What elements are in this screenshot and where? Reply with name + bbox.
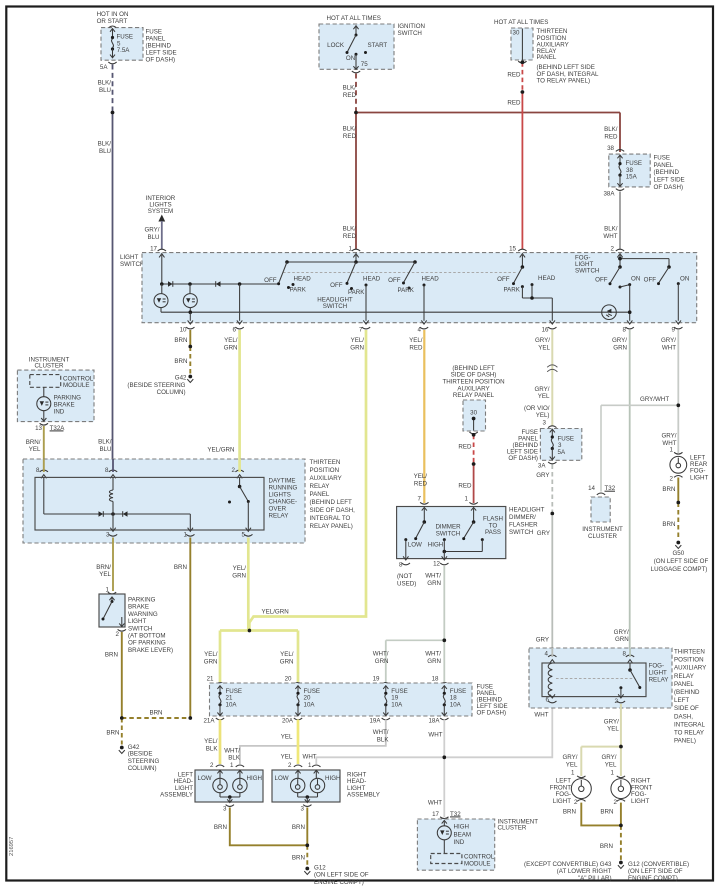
- svg-text:30: 30: [513, 30, 520, 37]
- svg-text:HEAD: HEAD: [363, 276, 381, 283]
- svg-text:GRN: GRN: [224, 344, 238, 351]
- svg-text:17: 17: [432, 811, 439, 818]
- svg-text:2: 2: [574, 799, 578, 806]
- svg-text:POSITION: POSITION: [674, 657, 704, 664]
- svg-text:PANEL: PANEL: [310, 491, 330, 498]
- svg-text:GRY/: GRY/: [601, 754, 616, 761]
- svg-text:COLUMN): COLUMN): [128, 765, 157, 772]
- svg-text:1: 1: [184, 532, 188, 539]
- svg-text:HOT IN ON: HOT IN ON: [97, 11, 129, 18]
- svg-text:RED: RED: [458, 444, 472, 451]
- svg-text:PANEL): PANEL): [674, 738, 696, 745]
- svg-text:FOG-: FOG-: [649, 663, 664, 670]
- svg-text:(BEHIND: (BEHIND: [654, 169, 680, 176]
- svg-text:12: 12: [433, 561, 440, 568]
- svg-text:RED: RED: [343, 233, 357, 240]
- svg-text:CHANGE-: CHANGE-: [269, 499, 298, 506]
- svg-text:5: 5: [242, 532, 246, 539]
- svg-text:BLK/: BLK/: [604, 126, 618, 133]
- svg-text:GRN: GRN: [232, 572, 246, 579]
- svg-text:BEAM: BEAM: [454, 831, 472, 838]
- svg-text:WHT/: WHT/: [425, 651, 441, 658]
- svg-text:WARNING: WARNING: [128, 611, 158, 618]
- svg-text:HEAD: HEAD: [538, 275, 556, 282]
- svg-text:SWITCH: SWITCH: [575, 268, 599, 275]
- svg-text:14: 14: [588, 485, 595, 492]
- svg-text:LIGHTS: LIGHTS: [269, 492, 291, 499]
- svg-text:BLK: BLK: [377, 736, 390, 743]
- svg-text:DAYTIME: DAYTIME: [269, 478, 296, 485]
- svg-text:YEL/: YEL/: [233, 565, 247, 572]
- svg-text:2: 2: [288, 762, 292, 769]
- svg-text:OFF: OFF: [388, 277, 401, 284]
- svg-text:MODULE: MODULE: [63, 382, 89, 389]
- svg-text:YEL: YEL: [281, 733, 293, 740]
- svg-text:DASH,: DASH,: [674, 713, 693, 720]
- svg-text:3: 3: [301, 806, 305, 813]
- svg-text:BRN: BRN: [563, 808, 576, 815]
- svg-text:ENGINE COMPT): ENGINE COMPT): [628, 875, 678, 882]
- svg-text:ENGINE COMPT): ENGINE COMPT): [314, 879, 364, 886]
- svg-text:GRY: GRY: [536, 637, 549, 644]
- svg-text:(BESIDE: (BESIDE: [128, 751, 153, 758]
- svg-text:FUSE: FUSE: [654, 154, 671, 161]
- svg-text:10A: 10A: [450, 701, 462, 708]
- svg-text:BRN: BRN: [174, 358, 187, 365]
- svg-text:SIDE OF DASH): SIDE OF DASH): [451, 372, 497, 379]
- svg-text:38A: 38A: [603, 191, 615, 198]
- svg-text:LIGHT: LIGHT: [631, 798, 649, 805]
- svg-text:BLK/: BLK/: [604, 226, 618, 233]
- svg-text:RED: RED: [507, 100, 521, 107]
- svg-text:3: 3: [543, 420, 547, 427]
- svg-text:2: 2: [614, 799, 618, 806]
- svg-text:BRN/: BRN/: [26, 439, 41, 446]
- svg-text:BRN: BRN: [214, 824, 227, 831]
- svg-text:MODULE: MODULE: [464, 860, 490, 867]
- svg-text:GRN: GRN: [427, 580, 441, 587]
- svg-text:SWITCH: SWITCH: [323, 303, 347, 310]
- svg-text:YEL: YEL: [538, 344, 550, 351]
- svg-text:1: 1: [611, 770, 615, 777]
- svg-text:GRY/: GRY/: [614, 629, 629, 636]
- svg-text:GRY/: GRY/: [562, 754, 577, 761]
- svg-text:FOG-: FOG-: [690, 468, 705, 475]
- svg-text:YEL/: YEL/: [414, 473, 428, 480]
- svg-text:5A: 5A: [558, 449, 566, 456]
- svg-text:3: 3: [106, 532, 110, 539]
- svg-text:BRN: BRN: [600, 843, 613, 850]
- svg-text:PARK: PARK: [348, 289, 365, 296]
- svg-text:WHT/: WHT/: [425, 573, 441, 580]
- svg-text:LEFT SIDE: LEFT SIDE: [146, 50, 177, 57]
- svg-text:10A: 10A: [391, 701, 403, 708]
- svg-text:WHT: WHT: [534, 711, 548, 718]
- svg-text:GRY: GRY: [537, 530, 550, 537]
- svg-text:BLK/: BLK/: [343, 226, 357, 233]
- svg-text:LOW: LOW: [198, 775, 212, 782]
- svg-text:TO RELAY: TO RELAY: [674, 730, 704, 737]
- svg-text:2: 2: [232, 467, 236, 474]
- svg-text:15: 15: [509, 246, 516, 253]
- svg-text:10A: 10A: [226, 701, 238, 708]
- svg-text:(AT BOTTOM: (AT BOTTOM: [128, 633, 165, 640]
- svg-text:LIGHT: LIGHT: [649, 670, 667, 677]
- svg-text:BRN: BRN: [174, 564, 187, 571]
- svg-text:OF DASH): OF DASH): [508, 455, 538, 462]
- svg-text:SIDE OF DASH,: SIDE OF DASH,: [310, 507, 356, 514]
- svg-text:(ON LEFT SIDE OF: (ON LEFT SIDE OF: [314, 872, 369, 879]
- svg-text:ASSEMBLY: ASSEMBLY: [160, 792, 193, 799]
- svg-text:SYSTEM: SYSTEM: [148, 208, 173, 215]
- svg-text:WHT/: WHT/: [224, 747, 240, 754]
- svg-text:10: 10: [180, 327, 187, 334]
- svg-text:17: 17: [150, 246, 157, 253]
- svg-text:RED: RED: [343, 92, 357, 99]
- svg-text:START: START: [368, 42, 388, 49]
- svg-text:RELAY PANEL): RELAY PANEL): [310, 523, 353, 530]
- svg-text:BRAKE: BRAKE: [54, 402, 75, 409]
- svg-text:20: 20: [285, 676, 292, 683]
- svg-text:WHT: WHT: [428, 799, 442, 806]
- svg-text:BRN: BRN: [662, 486, 675, 493]
- svg-text:COLUMN): COLUMN): [157, 389, 186, 396]
- svg-text:YEL: YEL: [607, 726, 619, 733]
- svg-text:BLU: BLU: [147, 234, 159, 241]
- svg-text:BRN: BRN: [662, 521, 675, 528]
- svg-text:PANEL: PANEL: [654, 162, 674, 169]
- svg-text:38: 38: [607, 145, 614, 152]
- svg-text:BRN: BRN: [292, 855, 305, 862]
- svg-text:PARK: PARK: [504, 286, 521, 293]
- svg-text:RED: RED: [343, 133, 357, 140]
- svg-text:INTEGRAL: INTEGRAL: [674, 721, 706, 728]
- svg-text:ON: ON: [680, 276, 689, 283]
- svg-text:LOW: LOW: [275, 775, 289, 782]
- svg-text:G12 (CONVERTIBLE): G12 (CONVERTIBLE): [628, 861, 689, 868]
- svg-text:21: 21: [207, 676, 214, 683]
- svg-text:1: 1: [230, 762, 234, 769]
- svg-text:BRAKE LEVER): BRAKE LEVER): [128, 647, 173, 654]
- svg-text:TO RELAY PANEL): TO RELAY PANEL): [537, 78, 591, 85]
- svg-text:CLUSTER: CLUSTER: [588, 533, 617, 540]
- svg-text:(BEHIND LEFT: (BEHIND LEFT: [310, 499, 353, 506]
- svg-text:CLUSTER: CLUSTER: [35, 363, 64, 370]
- svg-text:6: 6: [233, 327, 237, 334]
- svg-text:LUGGAGE COMPT): LUGGAGE COMPT): [651, 566, 708, 573]
- svg-text:BRN: BRN: [105, 652, 118, 659]
- svg-text:OFF: OFF: [497, 276, 510, 283]
- svg-text:8: 8: [105, 467, 109, 474]
- svg-text:IND: IND: [454, 839, 465, 846]
- svg-text:3: 3: [223, 806, 227, 813]
- svg-text:7.5A: 7.5A: [117, 47, 131, 54]
- svg-text:SWITCH: SWITCH: [436, 530, 460, 537]
- svg-text:GRY: GRY: [536, 472, 549, 479]
- svg-text:ON: ON: [631, 276, 640, 283]
- svg-text:LIGHT: LIGHT: [553, 798, 571, 805]
- svg-text:SIDE OF: SIDE OF: [674, 705, 699, 712]
- svg-text:WHT/: WHT/: [373, 729, 389, 736]
- svg-text:PANEL: PANEL: [537, 54, 557, 61]
- svg-text:19: 19: [373, 676, 380, 683]
- svg-text:WHT: WHT: [428, 731, 442, 738]
- svg-text:BLK/: BLK/: [98, 80, 112, 87]
- svg-text:RELAY: RELAY: [269, 513, 289, 520]
- svg-text:RED: RED: [458, 482, 472, 489]
- svg-text:OR START: OR START: [97, 18, 128, 25]
- svg-text:OFF: OFF: [595, 277, 608, 284]
- svg-text:GRN: GRN: [615, 636, 629, 643]
- svg-text:15A: 15A: [626, 174, 638, 181]
- svg-text:RED: RED: [414, 480, 428, 487]
- svg-text:GRY/: GRY/: [604, 718, 619, 725]
- svg-text:BRN/: BRN/: [96, 564, 111, 571]
- svg-text:18A: 18A: [428, 718, 440, 725]
- svg-text:(BEHIND: (BEHIND: [674, 689, 700, 696]
- svg-text:OF DASH): OF DASH): [654, 184, 684, 191]
- svg-text:1: 1: [349, 246, 353, 253]
- svg-text:G42: G42: [175, 374, 187, 381]
- svg-text:YEL/: YEL/: [204, 651, 218, 658]
- svg-text:CLUSTER: CLUSTER: [498, 825, 527, 832]
- svg-text:SWITCH: SWITCH: [398, 30, 422, 37]
- svg-text:INSTRUMENT: INSTRUMENT: [582, 526, 623, 533]
- svg-text:WHT/: WHT/: [373, 651, 389, 658]
- svg-text:2: 2: [611, 246, 615, 253]
- svg-text:LOCK: LOCK: [327, 42, 345, 49]
- svg-text:216957: 216957: [9, 837, 15, 856]
- svg-text:LIGHT: LIGHT: [120, 254, 138, 261]
- svg-text:OF DASH): OF DASH): [146, 57, 176, 64]
- svg-text:GRN: GRN: [427, 658, 441, 665]
- svg-text:RED: RED: [409, 344, 423, 351]
- svg-text:RUNNING: RUNNING: [269, 485, 298, 492]
- svg-text:GRN: GRN: [280, 658, 294, 665]
- svg-text:LIGHT: LIGHT: [690, 475, 708, 482]
- svg-text:RELAY: RELAY: [674, 673, 694, 680]
- svg-text:YEL: YEL: [538, 393, 550, 400]
- svg-text:(EXCEPT CONVERTIBLE) G43: (EXCEPT CONVERTIBLE) G43: [524, 861, 612, 868]
- svg-text:LIGHT: LIGHT: [128, 618, 146, 625]
- svg-text:YEL: YEL: [99, 571, 111, 578]
- svg-text:1: 1: [308, 762, 312, 769]
- svg-text:GRN: GRN: [613, 344, 627, 351]
- svg-text:BLK/: BLK/: [98, 141, 112, 148]
- svg-text:9: 9: [672, 327, 676, 334]
- svg-text:POSITION: POSITION: [310, 467, 340, 474]
- svg-text:4: 4: [418, 327, 422, 334]
- svg-text:YEL: YEL: [566, 761, 578, 768]
- svg-text:YEL/: YEL/: [204, 738, 218, 745]
- svg-text:16: 16: [542, 327, 549, 334]
- svg-text:8: 8: [623, 327, 627, 334]
- svg-text:HEAD: HEAD: [422, 276, 440, 283]
- svg-text:HIGH: HIGH: [325, 775, 340, 782]
- svg-text:YEL/GRN: YEL/GRN: [207, 447, 234, 454]
- svg-text:YEL/GRN: YEL/GRN: [262, 608, 289, 615]
- svg-text:19A: 19A: [369, 718, 381, 725]
- svg-text:1: 1: [465, 496, 469, 503]
- svg-text:"A" PILLAR): "A" PILLAR): [578, 875, 612, 882]
- svg-text:LEFT SIDE: LEFT SIDE: [654, 176, 685, 183]
- svg-text:BLK/: BLK/: [343, 85, 357, 92]
- svg-text:GRY/: GRY/: [661, 337, 676, 344]
- svg-text:OFF: OFF: [330, 282, 343, 289]
- svg-text:YEL/: YEL/: [351, 337, 365, 344]
- svg-text:LEFT: LEFT: [674, 697, 689, 704]
- svg-text:PARKING: PARKING: [54, 395, 82, 402]
- svg-text:BLU: BLU: [99, 446, 111, 453]
- svg-text:GRN: GRN: [350, 344, 364, 351]
- svg-text:8: 8: [36, 467, 40, 474]
- svg-text:PARKING: PARKING: [128, 597, 156, 604]
- svg-text:GRY/: GRY/: [661, 433, 676, 440]
- svg-text:BLK/: BLK/: [98, 439, 112, 446]
- svg-text:HIGH: HIGH: [247, 775, 262, 782]
- svg-text:2: 2: [210, 762, 214, 769]
- svg-text:WHT: WHT: [303, 753, 317, 760]
- svg-text:OVER: OVER: [269, 506, 287, 513]
- svg-text:THIRTEEN: THIRTEEN: [674, 649, 705, 656]
- svg-text:GRY/: GRY/: [534, 386, 549, 393]
- svg-text:HEADLIGHT: HEADLIGHT: [509, 507, 545, 514]
- svg-text:SWITCH: SWITCH: [128, 625, 152, 632]
- svg-text:13: 13: [35, 425, 42, 432]
- svg-text:30: 30: [470, 409, 477, 416]
- svg-text:20A: 20A: [282, 718, 294, 725]
- svg-text:RELAY PANEL: RELAY PANEL: [453, 392, 495, 399]
- svg-text:18: 18: [432, 676, 439, 683]
- svg-text:(ON LEFT SIDE OF: (ON LEFT SIDE OF: [654, 558, 709, 565]
- svg-text:BRN: BRN: [292, 824, 305, 831]
- svg-text:(AT LOWER RIGHT: (AT LOWER RIGHT: [557, 868, 612, 875]
- svg-text:GRY/: GRY/: [535, 337, 550, 344]
- svg-text:BRAKE: BRAKE: [128, 604, 149, 611]
- svg-text:G12: G12: [314, 864, 326, 871]
- svg-text:FUSE: FUSE: [146, 29, 163, 36]
- svg-text:6: 6: [546, 696, 550, 703]
- svg-text:BLK: BLK: [206, 745, 219, 752]
- svg-text:IND: IND: [54, 409, 65, 416]
- svg-text:BLU: BLU: [99, 87, 111, 94]
- svg-text:BRN: BRN: [174, 337, 187, 344]
- svg-text:OF PARKING: OF PARKING: [128, 640, 166, 647]
- svg-text:8: 8: [399, 562, 403, 569]
- svg-text:1: 1: [571, 770, 575, 777]
- svg-text:HEAD: HEAD: [294, 276, 312, 283]
- svg-text:BLU: BLU: [99, 148, 111, 155]
- svg-text:2: 2: [116, 631, 120, 638]
- svg-text:YEL/: YEL/: [409, 337, 423, 344]
- svg-text:STEERING: STEERING: [128, 758, 160, 765]
- svg-text:BLK/: BLK/: [343, 126, 357, 133]
- svg-text:RELAY: RELAY: [649, 677, 669, 684]
- svg-text:BLK: BLK: [228, 755, 241, 762]
- svg-text:PARK: PARK: [290, 286, 307, 293]
- svg-text:HIGH: HIGH: [454, 823, 469, 830]
- svg-text:AUXILIARY: AUXILIARY: [674, 665, 706, 672]
- svg-text:YEL: YEL: [29, 446, 41, 453]
- svg-text:(ON LEFT SIDE OF: (ON LEFT SIDE OF: [628, 868, 683, 875]
- svg-text:OFF: OFF: [264, 277, 277, 284]
- svg-text:INTEGRAL TO: INTEGRAL TO: [310, 515, 351, 522]
- svg-text:PARK: PARK: [398, 287, 415, 294]
- svg-text:RED: RED: [604, 133, 618, 140]
- svg-text:GRN: GRN: [204, 658, 218, 665]
- svg-text:21A: 21A: [203, 718, 215, 725]
- svg-text:GRY/WHT: GRY/WHT: [640, 396, 669, 403]
- svg-text:YEL: YEL: [281, 753, 293, 760]
- svg-text:2: 2: [615, 698, 619, 705]
- svg-text:BRN: BRN: [600, 808, 613, 815]
- svg-text:(BEHIND: (BEHIND: [146, 43, 172, 50]
- svg-text:HOT AT ALL TIMES: HOT AT ALL TIMES: [494, 19, 548, 26]
- svg-text:RED: RED: [507, 72, 521, 79]
- svg-text:(NOT: (NOT: [397, 573, 412, 580]
- svg-text:SWITCH: SWITCH: [509, 529, 533, 536]
- svg-text:THIRTEEN: THIRTEEN: [310, 459, 341, 466]
- svg-text:USED): USED): [397, 580, 416, 587]
- svg-text:PANEL: PANEL: [674, 681, 694, 688]
- svg-text:YEL/: YEL/: [224, 337, 238, 344]
- svg-text:GRY/: GRY/: [144, 227, 159, 234]
- svg-text:BRN: BRN: [149, 710, 162, 717]
- svg-text:AUXILIARY: AUXILIARY: [310, 475, 342, 482]
- svg-text:OF DASH): OF DASH): [477, 710, 507, 717]
- svg-text:YEL: YEL: [605, 761, 617, 768]
- svg-text:3A: 3A: [538, 463, 546, 470]
- svg-text:SWITCH: SWITCH: [120, 261, 144, 268]
- svg-text:HIGH: HIGH: [428, 542, 443, 549]
- svg-text:GRY/: GRY/: [612, 337, 627, 344]
- svg-text:RELAY: RELAY: [310, 483, 330, 490]
- svg-text:75: 75: [361, 61, 368, 68]
- svg-text:YEL): YEL): [536, 412, 550, 419]
- svg-text:OFF: OFF: [644, 277, 657, 284]
- svg-text:2: 2: [670, 476, 674, 483]
- svg-text:WHT: WHT: [662, 344, 676, 351]
- svg-text:HOT AT ALL TIMES: HOT AT ALL TIMES: [327, 15, 381, 22]
- svg-text:5A: 5A: [100, 64, 108, 71]
- svg-text:PASS: PASS: [485, 529, 501, 536]
- svg-text:YEL/: YEL/: [280, 651, 294, 658]
- svg-text:PANEL: PANEL: [146, 36, 166, 43]
- svg-text:DIMMER/: DIMMER/: [509, 514, 536, 521]
- svg-text:1: 1: [670, 447, 674, 454]
- svg-text:7: 7: [359, 327, 363, 334]
- svg-text:LOW: LOW: [408, 542, 422, 549]
- svg-text:ASSEMBLY: ASSEMBLY: [347, 792, 380, 799]
- svg-text:10A: 10A: [304, 701, 316, 708]
- svg-text:7: 7: [418, 496, 422, 503]
- svg-text:WHT: WHT: [603, 233, 617, 240]
- svg-text:G50: G50: [672, 550, 684, 557]
- svg-text:ON: ON: [346, 55, 355, 62]
- svg-text:FLASHER: FLASHER: [509, 522, 538, 529]
- svg-text:BRN: BRN: [106, 729, 119, 736]
- svg-text:GRN: GRN: [375, 658, 389, 665]
- svg-text:(OR VIO/: (OR VIO/: [524, 405, 550, 412]
